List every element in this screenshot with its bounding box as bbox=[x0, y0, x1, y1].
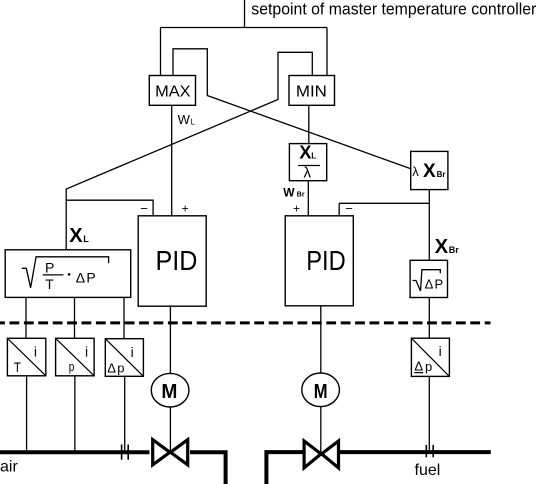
svg-text:Br: Br bbox=[449, 245, 459, 255]
svg-text:−: − bbox=[140, 201, 148, 216]
svg-text:i: i bbox=[34, 344, 37, 360]
svg-text:P: P bbox=[86, 270, 95, 286]
svg-text:Br: Br bbox=[297, 192, 305, 199]
svg-text:Δ: Δ bbox=[414, 358, 423, 373]
svg-text:W: W bbox=[283, 185, 295, 199]
svg-text:Δ: Δ bbox=[425, 276, 434, 291]
svg-text:−: − bbox=[345, 201, 353, 216]
svg-text:P: P bbox=[435, 276, 444, 291]
svg-text:X: X bbox=[423, 161, 436, 182]
svg-text:PID: PID bbox=[306, 245, 346, 276]
svg-text:X: X bbox=[69, 225, 83, 247]
svg-text:X: X bbox=[299, 142, 311, 162]
svg-text:T: T bbox=[14, 360, 21, 375]
svg-text:p: p bbox=[117, 360, 124, 375]
svg-text:i: i bbox=[85, 344, 88, 360]
svg-text:M: M bbox=[161, 381, 177, 403]
svg-text:λ: λ bbox=[304, 165, 312, 182]
svg-text:L: L bbox=[191, 118, 196, 127]
svg-text:p: p bbox=[425, 359, 432, 374]
svg-text:+: + bbox=[293, 201, 300, 215]
svg-text:MAX: MAX bbox=[155, 83, 191, 100]
svg-text:L: L bbox=[311, 151, 316, 160]
svg-text:W: W bbox=[178, 112, 191, 127]
svg-text:p: p bbox=[69, 359, 75, 374]
svg-text:i: i bbox=[131, 344, 134, 360]
svg-text:L: L bbox=[83, 234, 89, 244]
svg-text:PID: PID bbox=[156, 245, 198, 276]
svg-text:Δ: Δ bbox=[107, 360, 116, 375]
svg-text:Br: Br bbox=[437, 170, 446, 179]
svg-text:M: M bbox=[314, 381, 328, 403]
svg-text:X: X bbox=[435, 236, 449, 258]
svg-text:i: i bbox=[439, 343, 442, 359]
svg-text:λ: λ bbox=[412, 164, 419, 179]
svg-text:fuel: fuel bbox=[415, 462, 441, 479]
svg-text:MIN: MIN bbox=[296, 83, 327, 100]
svg-text:T: T bbox=[45, 276, 54, 292]
svg-text:P: P bbox=[45, 259, 54, 275]
svg-text:+: + bbox=[182, 201, 189, 215]
svg-text:Δ: Δ bbox=[76, 270, 85, 286]
svg-text:air: air bbox=[0, 459, 18, 476]
svg-text:setpoint of master temperature: setpoint of master temperature controlle… bbox=[251, 0, 536, 18]
